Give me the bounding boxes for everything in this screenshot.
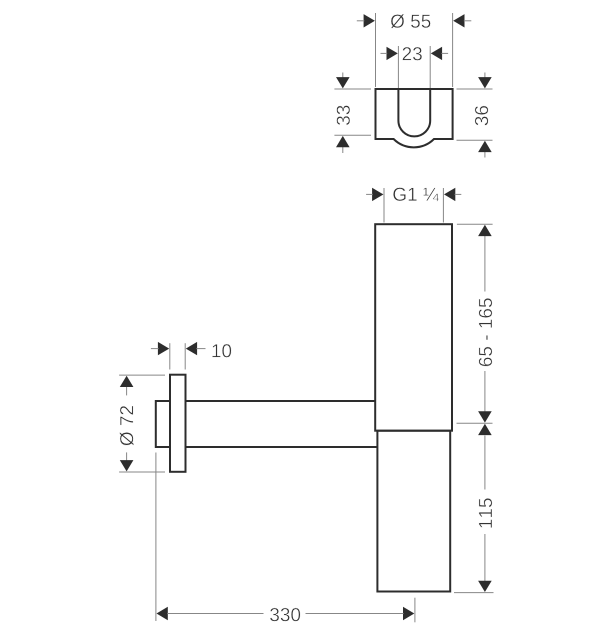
U-shaped inlet slot	[398, 89, 430, 136]
dimension Ø72 label (rotated)	[120, 406, 134, 446]
dimension Ø55 extension lines	[376, 13, 453, 87]
dimension 36 (right height) ticks	[457, 73, 493, 158]
dimension 10 label	[212, 344, 231, 357]
dimension 36 arrows	[478, 77, 492, 152]
dimension 33 arrows	[336, 77, 350, 147]
dimension 65-165 arrows	[478, 225, 492, 423]
wall flange (rosette)	[170, 375, 186, 472]
siphon cup outline	[377, 431, 450, 592]
dimension 23 extension lines	[398, 46, 430, 88]
wall pipe stub outline	[156, 401, 170, 447]
dimension 65-165 ticks	[457, 224, 493, 423]
dimension G1 1/4 label	[393, 188, 439, 202]
dimension 330 line	[167, 613, 403, 615]
dimension 23 arrows and leaders	[387, 47, 443, 60]
dimension 65-165 label (rotated)	[479, 298, 492, 366]
horizontal wall tube outline	[186, 401, 378, 447]
dimension 10 arrows and leaders	[158, 342, 197, 355]
dimension Ø72 arrows	[120, 376, 134, 472]
dimension G1 1/4 extension lines	[384, 188, 443, 223]
dimension 330 label	[270, 608, 300, 621]
dimension 115 arrows	[478, 424, 492, 592]
dimension 330 extension lines	[156, 453, 415, 623]
dimension Ø55 arrows and leaders	[364, 14, 465, 27]
dimension 33 label (rotated)	[337, 106, 350, 126]
dimension 23 label	[403, 47, 422, 60]
wall bracket body outline (top view)	[376, 89, 453, 147]
dimension 115 label (rotated)	[479, 498, 492, 527]
dimension Ø72 ticks	[119, 375, 165, 472]
dimension 36 label (rotated)	[475, 106, 488, 126]
dimension 33 (left height) ticks	[334, 73, 371, 154]
dimension G1 1/4 arrows and leaders	[372, 188, 455, 201]
dimension Ø55 label	[391, 14, 431, 28]
dimension 10 extension lines	[170, 343, 185, 369]
siphon riser tube outline	[375, 224, 452, 431]
dimension 115 ticks	[454, 436, 494, 593]
dimension 330 arrows	[157, 607, 415, 620]
